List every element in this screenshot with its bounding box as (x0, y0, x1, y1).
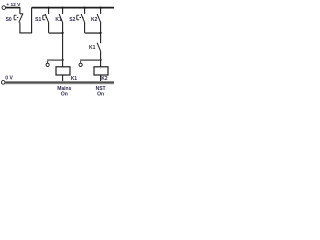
node rail-S1 (48, 7, 50, 9)
relay coil K2 (94, 60, 108, 83)
node K1 join (62, 32, 64, 34)
svg-text:On: On (97, 92, 104, 98)
relay coil K1 (56, 60, 70, 83)
svg-text:On: On (61, 92, 68, 98)
node K1 coil top (62, 59, 64, 61)
svg-text:K1: K1 (89, 45, 96, 51)
relay contact K2 (NO, latch) (97, 8, 101, 44)
svg-text:K2: K2 (91, 17, 98, 23)
relay contact K1 (NO, interlock) (97, 43, 101, 60)
svg-text:K2: K2 (101, 76, 108, 82)
terminal tap rung2 (79, 60, 101, 66)
node K2 coil top (100, 59, 102, 61)
node rail-K1 (62, 7, 64, 9)
relay contact K1 (NO, latch) (59, 8, 63, 60)
terminal +12V (2, 6, 6, 10)
pushbutton S0 (NC) (14, 7, 23, 23)
node rail-S2 (84, 7, 86, 9)
wire bottom rail (5, 81, 114, 84)
node rail-K2 (100, 7, 102, 9)
wire S1 to K1 join (49, 32, 63, 34)
wire S0 dip (20, 8, 32, 33)
wire S2 to K2 join (85, 32, 101, 34)
svg-text:S2: S2 (69, 17, 75, 23)
pushbutton S1 (NO) (43, 8, 49, 33)
svg-text:S0: S0 (6, 17, 12, 23)
svg-text:0 V: 0 V (5, 75, 13, 81)
terminal tap rung1 (46, 60, 63, 66)
terminal 0V (1, 81, 5, 85)
node K2 join (100, 32, 102, 34)
wire top rail (32, 7, 114, 9)
wire top feed (6, 7, 20, 9)
svg-text:S1: S1 (35, 17, 41, 23)
pushbutton S2 (NO) (77, 8, 85, 33)
